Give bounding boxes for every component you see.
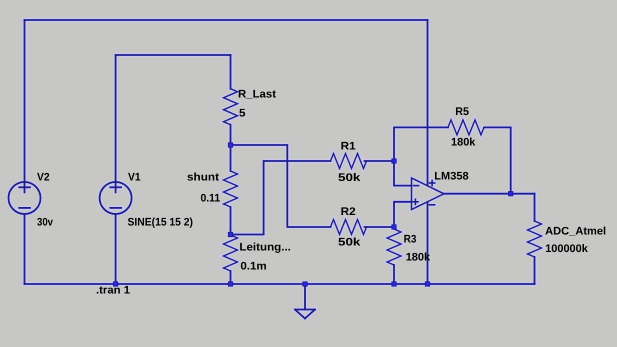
svg-text:R3: R3 (404, 234, 417, 246)
svg-text:50k: 50k (338, 237, 361, 249)
svg-text:shunt: shunt (187, 172, 219, 184)
svg-text:0.1m: 0.1m (240, 261, 267, 273)
svg-text:R_Last: R_Last (238, 89, 276, 101)
svg-text:50k: 50k (338, 172, 361, 184)
svg-text:0.11: 0.11 (201, 193, 221, 205)
svg-text:30v: 30v (37, 217, 54, 229)
svg-text:SINE(15 15 2): SINE(15 15 2) (128, 217, 194, 229)
svg-text:R1: R1 (341, 141, 356, 153)
svg-text:ADC_Atmel: ADC_Atmel (545, 225, 606, 237)
svg-text:5: 5 (239, 108, 246, 120)
svg-text:180k: 180k (406, 252, 431, 264)
svg-text:Leitung...: Leitung... (239, 242, 291, 254)
svg-text:100000k: 100000k (545, 243, 588, 255)
svg-text:180k: 180k (451, 137, 476, 149)
svg-text:R5: R5 (455, 106, 469, 118)
svg-text:.tran 1: .tran 1 (96, 285, 130, 297)
svg-text:LM358: LM358 (434, 171, 468, 183)
svg-text:V1: V1 (128, 172, 141, 184)
svg-text:R2: R2 (341, 206, 356, 218)
svg-text:V2: V2 (37, 172, 50, 184)
